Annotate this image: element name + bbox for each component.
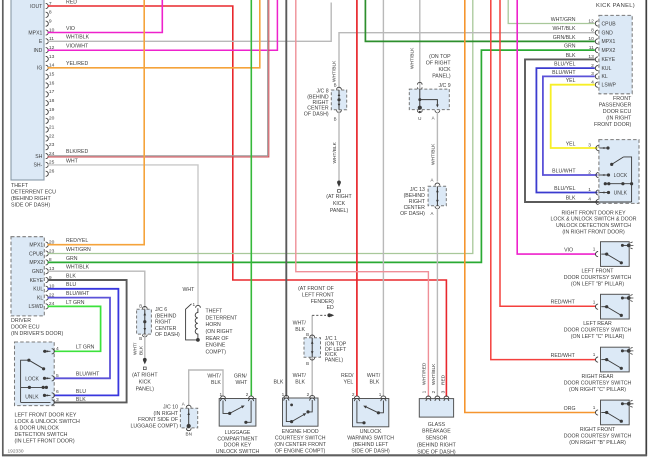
svg-text:KL: KL bbox=[37, 295, 43, 301]
svg-text:VIO/WHT: VIO/WHT bbox=[66, 44, 89, 50]
svg-text:OF DASH): OF DASH) bbox=[155, 332, 180, 338]
driver door ECU box bbox=[11, 237, 44, 316]
left front case ground bbox=[621, 244, 624, 247]
svg-text:J/C 10: J/C 10 bbox=[163, 404, 178, 410]
svg-text:RED/WHT: RED/WHT bbox=[551, 300, 576, 306]
svg-text:SIDE OF DASH): SIDE OF DASH) bbox=[417, 449, 456, 455]
left rear box bbox=[601, 294, 630, 319]
svg-text:4: 4 bbox=[56, 346, 59, 352]
svg-text:LT GRN: LT GRN bbox=[66, 300, 85, 306]
svg-text:DOOR COURTESY SWITCH: DOOR COURTESY SWITCH bbox=[564, 328, 632, 334]
wire YEL from passenger ECU LSWP pin 4 to right key switch pin 3 bbox=[551, 85, 598, 148]
wire WHT/GRN from top to passenger ECU CPUB pin 12 bbox=[508, 0, 595, 24]
wire BLU/WHT from driver ECU KL pin 22 to key switch pin 5 bbox=[48, 298, 111, 379]
unlock warning switch box bbox=[353, 399, 389, 427]
wire WHT/BLK from E pin 11 up at x331 bbox=[48, 3, 332, 42]
svg-text:IND: IND bbox=[34, 48, 43, 54]
svg-text:SH: SH bbox=[35, 154, 42, 160]
svg-text:(IN DRIVER'S DOOR): (IN DRIVER'S DOOR) bbox=[11, 331, 63, 337]
luggage switch internals bbox=[223, 401, 230, 414]
svg-text:(ON TOP: (ON TOP bbox=[429, 54, 451, 60]
svg-text:WHT/: WHT/ bbox=[367, 373, 381, 379]
svg-text:U: U bbox=[418, 116, 421, 121]
svg-text:FRONT DOOR): FRONT DOOR) bbox=[594, 122, 632, 128]
svg-text:KICK: KICK bbox=[333, 201, 346, 207]
left key switch pin 6 BLU bbox=[52, 393, 55, 398]
svg-text:RED/YEL: RED/YEL bbox=[66, 238, 88, 244]
svg-text:BLK: BLK bbox=[274, 380, 284, 386]
svg-text:OF DASH): OF DASH) bbox=[304, 111, 329, 117]
svg-text:GRN: GRN bbox=[66, 256, 78, 262]
svg-text:1: 1 bbox=[593, 405, 596, 410]
wire VIO from top to left front door courtesy switch bbox=[517, 0, 595, 254]
svg-text:15: 15 bbox=[49, 71, 55, 77]
svg-text:3: 3 bbox=[441, 390, 447, 393]
wire RED/WHT from top to right rear door courtesy switch bbox=[491, 0, 596, 360]
wire BLU/YEL from passenger ECU KUL pin 2 to right key switch pin 1 bbox=[536, 68, 597, 192]
svg-text:A: A bbox=[431, 178, 434, 183]
svg-text:UNLK: UNLK bbox=[614, 191, 628, 197]
svg-text:3: 3 bbox=[56, 397, 59, 403]
svg-text:MPX2: MPX2 bbox=[602, 48, 616, 54]
wire WHT from SH- pin 25 down to theft deterrent horn bbox=[48, 165, 199, 306]
svg-text:GRN/: GRN/ bbox=[234, 373, 248, 379]
svg-text:1: 1 bbox=[588, 187, 591, 193]
svg-text:WHT: WHT bbox=[66, 158, 79, 164]
svg-text:LSWD: LSWD bbox=[28, 304, 43, 310]
wire VIO from MPX1 pin 10 up to top bbox=[48, 0, 163, 33]
svg-text:KEYE: KEYE bbox=[602, 57, 616, 63]
right key switch pin 4 BLK bbox=[596, 199, 599, 204]
svg-text:23: 23 bbox=[49, 142, 55, 148]
svg-text:(ON RIGHT "B" PILLAR): (ON RIGHT "B" PILLAR) bbox=[569, 440, 626, 446]
svg-text:MPX1: MPX1 bbox=[28, 30, 42, 36]
wire GRN/BLK from top to passenger ECU MPX1 pin 10 bbox=[365, 0, 594, 41]
svg-text:SIDE OF DASH): SIDE OF DASH) bbox=[351, 448, 390, 454]
svg-text:2: 2 bbox=[352, 392, 355, 397]
svg-text:20: 20 bbox=[49, 116, 55, 122]
svg-text:LSWP: LSWP bbox=[602, 83, 617, 89]
svg-text:YEL: YEL bbox=[566, 78, 576, 84]
svg-text:WHT/GRN: WHT/GRN bbox=[551, 17, 576, 23]
svg-text:(ON CENTER FRONT: (ON CENTER FRONT bbox=[274, 442, 326, 448]
svg-text:WHT/BLK: WHT/BLK bbox=[66, 265, 90, 271]
svg-text:WHT/BLK: WHT/BLK bbox=[332, 141, 338, 163]
svg-text:CENTER: CENTER bbox=[155, 326, 177, 332]
svg-text:PANEL): PANEL) bbox=[136, 387, 155, 393]
svg-text:KICK: KICK bbox=[438, 67, 451, 73]
wire WHT/BLK from J/C 10 to luggage compartment switch pin 1 bbox=[189, 370, 223, 406]
svg-text:(ON LEFT "C" PILLAR): (ON LEFT "C" PILLAR) bbox=[571, 334, 625, 340]
junction connector J/C 9 bbox=[418, 82, 423, 84]
svg-text:SH-: SH- bbox=[34, 163, 43, 169]
wire ORG from top to right front door courtesy switch bbox=[465, 0, 596, 413]
svg-text:ORG: ORG bbox=[564, 406, 576, 412]
theft deterrent ECU box bbox=[11, 0, 44, 180]
ground at right kick panel (left) bbox=[143, 358, 147, 362]
svg-text:PASSENGER: PASSENGER bbox=[599, 102, 632, 108]
svg-text:BLK: BLK bbox=[370, 380, 380, 386]
page border left bbox=[2, 0, 4, 456]
svg-text:2: 2 bbox=[307, 392, 310, 397]
svg-text:GRN: GRN bbox=[564, 44, 576, 50]
svg-text:BLU/WHT: BLU/WHT bbox=[552, 169, 576, 175]
svg-text:(IN RIGHT: (IN RIGHT bbox=[154, 411, 179, 417]
svg-text:WHT/GRN: WHT/GRN bbox=[66, 247, 91, 253]
ground ED at front of left fender bbox=[312, 314, 326, 316]
svg-text:COMPT): COMPT) bbox=[206, 349, 227, 355]
svg-text:1: 1 bbox=[593, 299, 596, 304]
svg-text:19: 19 bbox=[49, 107, 55, 113]
svg-text:LT GRN: LT GRN bbox=[76, 345, 95, 351]
svg-text:WHT/: WHT/ bbox=[207, 373, 221, 379]
right front case ground bbox=[621, 402, 624, 405]
right key switch pin 1 BLU/YEL bbox=[596, 190, 599, 195]
engine hood courtesy switch box bbox=[283, 398, 319, 426]
svg-text:BLU/WHT: BLU/WHT bbox=[76, 372, 100, 378]
svg-text:PANEL): PANEL) bbox=[330, 208, 349, 214]
svg-text:A: A bbox=[431, 211, 434, 216]
svg-text:4: 4 bbox=[588, 197, 591, 203]
svg-text:BREAKAGE: BREAKAGE bbox=[422, 429, 451, 435]
svg-text:KL: KL bbox=[602, 74, 608, 80]
wire WHT/GRN from driver ECU CPUB pin 23 up at x473 bbox=[48, 0, 473, 254]
svg-text:5: 5 bbox=[56, 373, 59, 379]
svg-text:LOCK: LOCK bbox=[614, 173, 628, 179]
ground at right kick panel (center) bbox=[337, 181, 341, 185]
svg-text:BLK: BLK bbox=[138, 345, 144, 355]
wire BLK from passenger ECU KEYE pin 13 to right key switch pin 4 bbox=[525, 59, 600, 202]
svg-text:RIGHT: RIGHT bbox=[155, 320, 172, 326]
svg-text:BLK: BLK bbox=[295, 380, 305, 386]
svg-text:WHT/RED: WHT/RED bbox=[421, 362, 427, 385]
svg-text:(BEHIND LEFT: (BEHIND LEFT bbox=[353, 442, 389, 448]
svg-text:OF DASH): OF DASH) bbox=[400, 211, 425, 217]
svg-text:CPUB: CPUB bbox=[29, 251, 44, 257]
svg-text:& DOOR UNLOCK: & DOOR UNLOCK bbox=[15, 426, 60, 432]
svg-text:1: 1 bbox=[193, 302, 196, 307]
svg-text:B: B bbox=[334, 83, 337, 88]
svg-text:WHT/BLK: WHT/BLK bbox=[431, 363, 437, 385]
svg-text:HORN: HORN bbox=[206, 322, 222, 328]
svg-text:WHT/BLK: WHT/BLK bbox=[410, 47, 416, 69]
svg-text:DRIVER: DRIVER bbox=[11, 318, 31, 324]
unlock warning switch internals bbox=[357, 401, 363, 423]
svg-text:22: 22 bbox=[49, 133, 55, 139]
svg-text:WHT/BLK: WHT/BLK bbox=[431, 143, 437, 165]
wire WHT/BLK from top to unlock warning switch pin 1 bbox=[382, 0, 384, 397]
front passenger door ECU box bbox=[599, 15, 632, 93]
svg-text:FRONT: FRONT bbox=[613, 96, 632, 102]
right rear box bbox=[601, 347, 630, 372]
svg-text:BLK: BLK bbox=[566, 196, 576, 202]
svg-text:A: A bbox=[182, 401, 185, 406]
left front door key lock-unlock switch box bbox=[15, 342, 55, 406]
svg-text:FENDER): FENDER) bbox=[311, 299, 334, 305]
svg-text:GND: GND bbox=[32, 269, 44, 275]
svg-text:16: 16 bbox=[49, 80, 55, 86]
svg-text:RED: RED bbox=[66, 0, 77, 6]
page border bottom bbox=[2, 454, 647, 456]
svg-text:COMPARTMENT: COMPARTMENT bbox=[217, 436, 258, 442]
svg-text:A: A bbox=[432, 116, 435, 121]
wire VIO/WHT from IND pin 12 up to top bbox=[48, 0, 278, 50]
svg-text:RIGHT FRONT: RIGHT FRONT bbox=[580, 427, 616, 433]
svg-text:WARNING SWITCH: WARNING SWITCH bbox=[347, 436, 394, 442]
svg-text:B: B bbox=[139, 303, 142, 308]
svg-text:(ON RIGHT: (ON RIGHT bbox=[206, 329, 234, 335]
wire WHT/BLK from J/C 9 down to J/C 13 bbox=[436, 112, 438, 182]
right rear case ground bbox=[621, 349, 624, 352]
right key switch pin 2 BLU/WHT bbox=[596, 172, 599, 177]
svg-text:DOOR KEY: DOOR KEY bbox=[224, 443, 252, 449]
wire LT GRN from driver ECU LSWD pin 24 to key switch pin 4 bbox=[48, 306, 101, 351]
svg-text:(IN RIGHT FRONT DOOR): (IN RIGHT FRONT DOOR) bbox=[562, 230, 625, 236]
svg-text:WHT/BLK: WHT/BLK bbox=[552, 26, 576, 32]
svg-text:KICK PANEL): KICK PANEL) bbox=[596, 3, 635, 9]
svg-text:MPX2: MPX2 bbox=[29, 260, 43, 266]
svg-text:(AT RIGHT: (AT RIGHT bbox=[132, 373, 158, 379]
left front box bbox=[601, 242, 630, 267]
svg-text:(BEHIND RIGHT: (BEHIND RIGHT bbox=[417, 443, 457, 449]
svg-text:THEFT: THEFT bbox=[11, 183, 29, 189]
wire RED/YEL from driver ECU MPX1 pin 20 up to top bbox=[48, 0, 145, 245]
svg-text:LEFT FRONT DOOR KEY: LEFT FRONT DOOR KEY bbox=[15, 413, 77, 419]
svg-text:1: 1 bbox=[593, 247, 596, 252]
svg-text:SIDE OF DASH): SIDE OF DASH) bbox=[11, 203, 50, 209]
svg-text:DOOR ECU: DOOR ECU bbox=[11, 325, 40, 331]
left key switch pin 3 BLK bbox=[52, 400, 55, 405]
right front door key lock-unlock switch box bbox=[599, 140, 639, 204]
svg-text:(AT RIGHT: (AT RIGHT bbox=[326, 194, 352, 200]
svg-text:(BEHIND: (BEHIND bbox=[155, 313, 177, 319]
svg-text:3: 3 bbox=[588, 143, 591, 149]
svg-text:IOUT: IOUT bbox=[30, 4, 42, 10]
svg-text:11: 11 bbox=[589, 45, 594, 51]
wire WHT/BLK from J/C 13 down to glass breakage sensor pin 2 bbox=[436, 208, 438, 397]
svg-text:WHT/: WHT/ bbox=[133, 342, 139, 355]
wire RED/WHT from top to left rear door courtesy switch bbox=[500, 0, 596, 306]
wire WHT/BLK from ED ground to engine hood courtesy switch pin 2 bbox=[311, 315, 313, 396]
svg-text:DOOR ECU: DOOR ECU bbox=[603, 109, 632, 115]
svg-text:18: 18 bbox=[49, 98, 55, 104]
svg-text:J/C 9: J/C 9 bbox=[438, 83, 450, 89]
glass breakage sensor box bbox=[419, 399, 453, 418]
svg-text:(IN LEFT FRONT DOOR): (IN LEFT FRONT DOOR) bbox=[15, 439, 75, 445]
svg-text:UNLOCK SWITCH: UNLOCK SWITCH bbox=[216, 449, 260, 455]
svg-text:WHT/: WHT/ bbox=[293, 373, 307, 379]
svg-text:OF ENGINE COMPT): OF ENGINE COMPT) bbox=[275, 448, 326, 454]
svg-text:(IN RIGHT: (IN RIGHT bbox=[606, 115, 632, 121]
svg-text:BLK: BLK bbox=[76, 397, 86, 403]
svg-text:PANEL): PANEL) bbox=[432, 74, 451, 80]
svg-text:17: 17 bbox=[49, 89, 55, 95]
svg-text:KUL: KUL bbox=[602, 66, 612, 72]
svg-text:DOOR COURTESY SWITCH: DOOR COURTESY SWITCH bbox=[564, 275, 632, 281]
svg-text:REAR OF: REAR OF bbox=[206, 336, 229, 342]
svg-text:LEFT REAR: LEFT REAR bbox=[583, 321, 612, 327]
svg-text:KICK: KICK bbox=[139, 380, 152, 386]
svg-text:BLU/WHT: BLU/WHT bbox=[552, 70, 576, 76]
right front box bbox=[601, 400, 630, 425]
left key switch pin 5 BLU/WHT bbox=[52, 376, 55, 381]
svg-text:2: 2 bbox=[246, 392, 249, 397]
svg-text:BLK/RED: BLK/RED bbox=[66, 149, 88, 155]
svg-text:MPX1: MPX1 bbox=[29, 243, 43, 249]
svg-text:RIGHT REAR: RIGHT REAR bbox=[582, 374, 614, 380]
svg-text:WHT: WHT bbox=[236, 380, 249, 386]
svg-text:LEFT FRONT: LEFT FRONT bbox=[582, 268, 615, 274]
page border right bbox=[645, 0, 647, 456]
svg-text:9: 9 bbox=[49, 18, 52, 24]
svg-text:KUL: KUL bbox=[33, 287, 43, 293]
svg-text:CPUB: CPUB bbox=[602, 21, 617, 27]
svg-text:KEYE: KEYE bbox=[30, 278, 44, 284]
wire RED/YEL from top to unlock warning switch pin 2 bbox=[356, 0, 358, 397]
svg-text:WHT/BLK: WHT/BLK bbox=[332, 60, 338, 82]
svg-text:RIGHT FRONT DOOR KEY: RIGHT FRONT DOOR KEY bbox=[561, 210, 626, 216]
svg-text:YEL: YEL bbox=[566, 142, 576, 148]
svg-text:LUGGAGE: LUGGAGE bbox=[225, 430, 251, 436]
wire WHT/BLK from top into J/C 9 bbox=[419, 0, 421, 89]
svg-text:1: 1 bbox=[421, 390, 427, 393]
svg-text:DETECTION SWITCH: DETECTION SWITCH bbox=[15, 432, 68, 438]
svg-text:26: 26 bbox=[49, 169, 55, 175]
driver door ECU pins bbox=[46, 242, 49, 247]
svg-text:BLU/YEL: BLU/YEL bbox=[554, 186, 575, 192]
wire BLU from driver ECU KUL pin 10 to key switch pin 6 bbox=[48, 289, 119, 396]
svg-text:B: B bbox=[139, 336, 142, 341]
svg-text:LOCK & UNLOCK SWITCH & DOOR: LOCK & UNLOCK SWITCH & DOOR bbox=[551, 217, 637, 223]
svg-text:FRONT SIDE OF: FRONT SIDE OF bbox=[138, 417, 178, 423]
svg-text:BN: BN bbox=[186, 432, 192, 437]
svg-text:21: 21 bbox=[49, 124, 55, 130]
svg-text:GRN/BLK: GRN/BLK bbox=[553, 35, 576, 41]
svg-text:WHT/BLK: WHT/BLK bbox=[66, 35, 90, 41]
svg-text:WHT: WHT bbox=[183, 287, 196, 293]
svg-text:13: 13 bbox=[49, 54, 55, 60]
right key switch internals bbox=[600, 147, 609, 149]
svg-text:SENSOR: SENSOR bbox=[425, 436, 447, 442]
svg-text:BLU/YEL: BLU/YEL bbox=[554, 62, 575, 68]
wire BLK from driver ECU KEYE pin 9 to key switch pin 3 bbox=[48, 280, 127, 402]
svg-text:RED/WHT: RED/WHT bbox=[551, 353, 576, 359]
svg-text:8: 8 bbox=[591, 28, 594, 34]
left key switch pin 4 LT GRN bbox=[52, 349, 55, 354]
left rear case ground bbox=[621, 297, 624, 300]
svg-text:YEL: YEL bbox=[344, 380, 354, 386]
svg-text:(ON RIGHT "C" PILLAR): (ON RIGHT "C" PILLAR) bbox=[569, 387, 626, 393]
svg-text:MPX1: MPX1 bbox=[602, 39, 616, 45]
svg-text:(ON LEFT "B" PILLAR): (ON LEFT "B" PILLAR) bbox=[571, 282, 624, 288]
wire WHT/RED from top to glass breakage sensor pin 1 bbox=[296, 0, 429, 397]
svg-text:RED/: RED/ bbox=[341, 373, 354, 379]
svg-text:192330: 192330 bbox=[8, 449, 24, 455]
svg-text:IG: IG bbox=[37, 66, 42, 72]
wire GRN/WHT from top to luggage compartment switch pin 2 bbox=[250, 0, 252, 397]
svg-text:OF RIGHT: OF RIGHT bbox=[426, 61, 452, 67]
svg-text:BLU: BLU bbox=[76, 389, 86, 395]
svg-text:BLU: BLU bbox=[66, 282, 76, 288]
svg-text:RED: RED bbox=[441, 374, 447, 385]
svg-text:2: 2 bbox=[588, 170, 591, 176]
svg-text:LOCK: LOCK bbox=[25, 376, 39, 382]
wire WHT/BLK from passenger ECU GND pin 8 down through J/C 8 to ground bbox=[339, 33, 595, 89]
right key switch pin 3 YEL bbox=[596, 145, 599, 150]
svg-text:ENGINE HOOD: ENGINE HOOD bbox=[282, 429, 319, 435]
wire WHT/BLK from J/C 8 down to ground at right kick panel bbox=[338, 111, 340, 181]
svg-text:1: 1 bbox=[593, 352, 596, 357]
svg-text:J/C 6: J/C 6 bbox=[155, 307, 167, 313]
svg-text:DETERRENT: DETERRENT bbox=[206, 315, 239, 321]
svg-text:BLK: BLK bbox=[566, 53, 576, 59]
svg-text:LOCK & UNLOCK SWITCH: LOCK & UNLOCK SWITCH bbox=[15, 419, 81, 425]
svg-text:E: E bbox=[39, 39, 43, 45]
svg-text:WHT/: WHT/ bbox=[293, 321, 307, 327]
svg-text:VIO: VIO bbox=[564, 248, 573, 254]
svg-text:6: 6 bbox=[56, 389, 59, 395]
svg-text:BLK: BLK bbox=[211, 380, 221, 386]
svg-text:(BEHIND RIGHT: (BEHIND RIGHT bbox=[11, 196, 51, 202]
svg-text:LEFT FRONT: LEFT FRONT bbox=[302, 293, 335, 299]
svg-text:ED: ED bbox=[327, 305, 334, 311]
svg-text:B: B bbox=[334, 117, 337, 122]
wire BLU/WHT from passenger ECU KL pin 3 to right key switch pin 2 bbox=[543, 76, 598, 175]
svg-text:BLK: BLK bbox=[295, 327, 305, 333]
wire WHT/BLK from J/C 6 to ground at right kick panel bbox=[144, 335, 146, 358]
svg-text:GLASS: GLASS bbox=[428, 422, 446, 428]
wire BLK/RED from SH pin 24 up to top bbox=[48, 0, 269, 157]
svg-text:DOOR COURTESY SWITCH: DOOR COURTESY SWITCH bbox=[564, 381, 632, 387]
svg-text:2: 2 bbox=[431, 390, 437, 393]
front passenger door ECU pins bbox=[595, 21, 598, 26]
svg-text:THEFT: THEFT bbox=[206, 309, 224, 315]
svg-text:(AT FRONT OF: (AT FRONT OF bbox=[298, 286, 334, 292]
svg-text:YEL/RED: YEL/RED bbox=[66, 61, 88, 67]
engine hood switch internals bbox=[290, 404, 293, 407]
svg-text:COURTESY SWITCH: COURTESY SWITCH bbox=[275, 436, 326, 442]
wire BLK from top to engine hood courtesy switch pin 1 bbox=[285, 0, 287, 397]
svg-text:DOOR COURTESY SWITCH: DOOR COURTESY SWITCH bbox=[564, 433, 632, 439]
wire GRN from driver ECU MPX2 pin 8 to passenger ECU MPX2 pin 11 bbox=[48, 50, 595, 262]
svg-text:BLU/WHT: BLU/WHT bbox=[66, 291, 90, 297]
svg-text:VIO: VIO bbox=[66, 26, 75, 32]
svg-text:UNLOCK DETECTION SWITCH: UNLOCK DETECTION SWITCH bbox=[556, 223, 631, 229]
theft deterrent ECU pins 7-26 bbox=[46, 3, 49, 8]
svg-text:B: B bbox=[306, 332, 309, 337]
svg-text:UNLK: UNLK bbox=[25, 394, 39, 400]
svg-text:LUGGAGE COMPT): LUGGAGE COMPT) bbox=[130, 424, 178, 430]
svg-text:GND: GND bbox=[602, 31, 614, 37]
svg-text:UNLOCK: UNLOCK bbox=[360, 429, 382, 435]
wire WHT/BLK from driver ECU GND pin 13 down to J/C 6 bbox=[48, 271, 145, 308]
svg-text:1: 1 bbox=[379, 392, 382, 397]
left key switch internals bbox=[43, 350, 51, 352]
svg-text:PANEL): PANEL) bbox=[325, 357, 344, 363]
wire RED from IOUT pin 7 to glass breakage sensor pin 3 bbox=[48, 6, 447, 397]
svg-text:DETERRENT ECU: DETERRENT ECU bbox=[11, 190, 56, 196]
svg-text:8: 8 bbox=[49, 10, 52, 16]
svg-text:ENGINE: ENGINE bbox=[206, 343, 226, 349]
wire YEL/RED from IG pin 14 up to top bbox=[48, 0, 260, 68]
svg-text:BLK: BLK bbox=[66, 273, 76, 279]
svg-text:B: B bbox=[306, 361, 309, 366]
luggage compartment door key unlock switch box bbox=[219, 399, 256, 427]
